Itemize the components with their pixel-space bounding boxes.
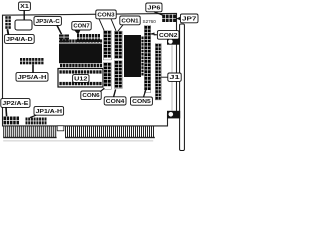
connector J1 header [155, 44, 161, 100]
label CON6 [81, 91, 101, 100]
label JP3/A-C [34, 17, 61, 26]
leader JP5 [32, 64, 34, 72]
IC chip (solid) above U12 [59, 44, 102, 64]
connector CON3 header [103, 31, 111, 60]
svg-text:JP4/A-D: JP4/A-D [6, 37, 33, 43]
jumper block JP4 header [5, 16, 7, 19]
bracket flange line [171, 45, 173, 111]
svg-text:U12: U12 [74, 76, 87, 82]
bracket upper ear tab with screw hole [167, 38, 180, 44]
svg-text:JP1/A-H: JP1/A-H [36, 109, 63, 115]
leader CON5 [144, 89, 147, 97]
svg-text:CON1: CON1 [121, 18, 138, 24]
connector CON2/CON5 header [144, 26, 151, 93]
svg-text:CON3: CON3 [97, 12, 114, 18]
svg-text:CON2: CON2 [159, 33, 178, 39]
connector CON4 header [114, 61, 122, 89]
leader CON2 [151, 33, 158, 35]
svg-text:JP5/A-H: JP5/A-H [18, 75, 47, 81]
svg-text:J1: J1 [169, 75, 179, 81]
label U12 [73, 75, 89, 83]
ISA card edge connector fingers [2, 126, 5, 137]
label JP4/A-D [5, 35, 35, 44]
leader JP1 [30, 115, 36, 117]
connector CON7 header [77, 34, 79, 38]
label CON7 [72, 22, 91, 30]
crystal X1 [15, 20, 32, 30]
connector CON6 header [103, 63, 111, 90]
label JP7 [180, 14, 198, 23]
label JP6 [146, 3, 162, 12]
bracket lower ear tab with screw hole [167, 111, 180, 119]
svg-text:CON5: CON5 [132, 99, 151, 105]
svg-text:JP2/A-E: JP2/A-E [2, 101, 29, 107]
label CON4 [104, 97, 126, 105]
label X1 [19, 2, 31, 10]
label CON3 [96, 10, 116, 19]
svg-text:JP3/A-C: JP3/A-C [36, 19, 60, 25]
jumper block JP2 header [4, 117, 7, 121]
jumper block JP1 header [26, 118, 28, 121]
label CON5 [131, 97, 153, 105]
jumper block JP5 header [20, 58, 22, 61]
label J1 [168, 73, 181, 81]
edge connector key notch box [57, 126, 64, 131]
connector CON1 header [114, 31, 122, 58]
mounting bracket bar [180, 24, 185, 151]
svg-text:S2760: S2760 [143, 19, 157, 24]
leader JP4 [6, 29, 9, 34]
PCB board outline [3, 13, 177, 126]
leader JP7 [176, 17, 180, 21]
svg-text:X1: X1 [20, 4, 29, 10]
jumper block JP6/JP7 header [162, 15, 165, 18]
label CON2 [157, 31, 179, 40]
leader CON4 [114, 89, 116, 96]
label CON1 [120, 16, 140, 25]
svg-text:JP6: JP6 [147, 5, 160, 11]
leader CON6 [101, 88, 105, 91]
label JP5/A-H [16, 73, 48, 82]
jumper block JP3 header [59, 35, 64, 37]
leader J1 [161, 76, 168, 78]
svg-text:CON4: CON4 [106, 99, 125, 105]
label JP2/A-E [1, 99, 30, 108]
label JP1/A-H [34, 107, 64, 116]
svg-text:JP7: JP7 [182, 16, 197, 22]
svg-text:CON7: CON7 [73, 24, 89, 30]
leader X1 [23, 10, 25, 20]
leader CON3 [99, 19, 104, 31]
leader JP6 [154, 12, 164, 16]
leader CON7 [74, 30, 81, 35]
leader JP3 [57, 25, 62, 34]
IC U12 chip body [58, 69, 103, 88]
svg-text:CON6: CON6 [82, 93, 99, 99]
leader CON1 [118, 25, 123, 32]
leader JP2 [5, 107, 8, 116]
IC chip (solid) large S2760 [124, 35, 141, 77]
